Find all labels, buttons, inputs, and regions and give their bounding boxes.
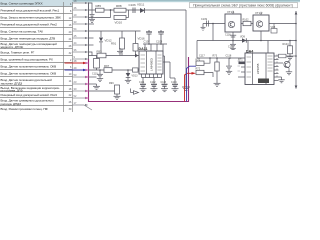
- ground (main rail): [182, 84, 190, 90]
- svg-text:VD9: VD9: [240, 36, 245, 39]
- table row lines: [0, 6, 73, 8]
- svg-text:VD10: VD10: [115, 21, 123, 25]
- wire pin row13: [73, 83, 86, 85]
- wire row4 stub: [89, 23, 95, 25]
- svg-text:Вход. уровневый ход расходомер: Вход. уровневый ход расходомера. РХ: [1, 58, 53, 62]
- wire pin row8: [73, 51, 86, 53]
- wire row14: [89, 90, 115, 92]
- wire DA11 right pins: [163, 56, 175, 84]
- IC DA11 voltage regulator: [139, 47, 164, 74]
- svg-text:VD8: VD8: [271, 26, 276, 29]
- svg-text:C108: C108: [156, 40, 163, 44]
- wire bus corner down / +rail vertical: [185, 10, 187, 84]
- zener VD12: [99, 31, 112, 56]
- wire red net (from bottom border to R72): [185, 72, 197, 102]
- pin codes in narrow column: [69, 3, 72, 111]
- top window edge strip: [0, 0, 300, 2]
- resistor R97: [104, 64, 112, 72]
- svg-text:C115: C115: [228, 46, 234, 49]
- capacitor C108: [156, 30, 164, 44]
- svg-text:жидкости. ДТОЖ: жидкости. ДТОЖ: [1, 45, 24, 49]
- wire pin row2: [73, 9, 86, 11]
- capacitor C104: [89, 10, 95, 22]
- wire pin row10 (red): [65, 62, 88, 65]
- svg-text:C114: C114: [171, 81, 177, 84]
- wire DA4 left pins: [238, 62, 245, 77]
- ground (pin row13): [93, 84, 100, 89]
- svg-text:R104: R104: [283, 43, 290, 46]
- svg-text:Принципиальная схема ЭБУ (прис: Принципиальная схема ЭБУ (приставки люкс…: [193, 4, 293, 8]
- wire DA11 bottom pins: [142, 74, 162, 84]
- transistor VT1.2: [253, 11, 269, 31]
- wire main top bus y=10.5: [89, 9, 187, 11]
- wire row13 stub: [89, 83, 97, 85]
- resistor R104: [283, 41, 293, 57]
- svg-text:R72: R72: [196, 68, 201, 71]
- svg-text:C109: C109: [201, 18, 208, 21]
- wire pin row1: [73, 2, 86, 4]
- wire VT1.2 down: [260, 31, 262, 41]
- diode VD10: [114, 16, 126, 25]
- ECU left border (grey upper part): [88, 2, 90, 59]
- wire pin row16: [73, 105, 93, 110]
- svg-text:R99: R99: [109, 82, 114, 85]
- svg-text:C116: C116: [225, 33, 231, 36]
- svg-text:C118: C118: [226, 55, 232, 58]
- svg-text:Вход. Датчик температуры возду: Вход. Датчик температуры воздуха. ДТВ: [1, 37, 56, 41]
- wire row5 bus: [89, 30, 141, 32]
- capacitor C112 + ground: [150, 81, 158, 92]
- capacitor C118 body + ground: [226, 58, 232, 74]
- resistor R99 + ground: [109, 82, 121, 99]
- wire row1 stub corner: [89, 3, 93, 10]
- wire row12 stub: [89, 76, 97, 78]
- wire DA4 top pins to bus: [248, 41, 268, 54]
- wire cap bus y=44: [143, 44, 167, 51]
- transistor VT2: [284, 60, 290, 70]
- transistor VT1.1: [225, 10, 241, 32]
- svg-text:C106: C106: [129, 3, 137, 7]
- svg-text:R88: R88: [116, 4, 122, 8]
- svg-text:R102: R102: [243, 19, 250, 22]
- resistor R96 (vertical between buses): [94, 56, 100, 71]
- wire pin row11 (blue): [65, 69, 88, 72]
- svg-text:C112: C112: [150, 81, 156, 84]
- svg-text:Вход. Датчик положения коленва: Вход. Датчик положения коленвала. ОКВ: [1, 72, 57, 76]
- wire pin row6: [73, 37, 86, 39]
- svg-text:Вход. Режим прошивки потенц. П: Вход. Режим прошивки потенц. ПФ: [1, 107, 49, 111]
- svg-text:L4949ED: L4949ED: [149, 57, 153, 71]
- wire pin row4: [73, 23, 86, 25]
- capacitor C105: [117, 48, 123, 56]
- wire vertical x=197: [196, 41, 198, 59]
- wire top-right bus y=23.5: [203, 23, 296, 25]
- node junction x=213: [212, 23, 214, 25]
- wire pin row3: [73, 16, 86, 18]
- pin numbers above wires: [74, 0, 77, 105]
- grey pin arrowheads at border: [85, 2, 88, 106]
- wire parallel branch verticals: [111, 10, 129, 18]
- svg-text:C110: C110: [92, 73, 98, 76]
- capacitor C107: [144, 30, 153, 44]
- wire lower bus y=70: [89, 69, 140, 71]
- svg-text:VD11: VD11: [137, 3, 145, 7]
- svg-text:VD13: VD13: [132, 75, 139, 78]
- capacitor C109 + ground: [201, 18, 209, 31]
- table right border x=72.5: [72, 2, 74, 112]
- wire row3 to parallel branch: [89, 17, 111, 19]
- wire x=213 down to bus y=40.5: [212, 24, 214, 41]
- ECU bottom border (magenta): [88, 101, 189, 103]
- wire DA4 right pins: [274, 56, 283, 81]
- resistor R70: [196, 58, 205, 65]
- wire row6 stub: [89, 37, 94, 39]
- capacitor C115: [228, 41, 236, 50]
- node split junction: [110, 9, 112, 11]
- wire row8 stub corner: [89, 52, 93, 56]
- capacitor C113 + ground: [161, 81, 169, 92]
- diode VD8: [271, 24, 278, 34]
- ground DA4 pin: [278, 77, 284, 83]
- wire mid bus y=55.5: [89, 55, 140, 57]
- wire row7 stub: [89, 44, 94, 46]
- wire VT1.1 down + capacitor C116: [225, 32, 236, 41]
- wire pin row15: [73, 97, 86, 99]
- svg-text:Вход. Сигнал на соленоид. ТАК: Вход. Сигнал на соленоид. ТАК: [1, 30, 44, 34]
- svg-text:Резервный вход дискретный низк: Резервный вход дискретный низкий. Рвх3: [1, 93, 58, 97]
- svg-text:Выход. Главное реле. РГ: Выход. Главное реле. РГ: [1, 51, 35, 55]
- svg-text:R70: R70: [196, 58, 201, 61]
- wire pin row5: [73, 30, 86, 32]
- table row texts: [1, 2, 61, 112]
- wire pin row7: [73, 44, 86, 46]
- wire blue net (from bottom border to R70): [187, 66, 197, 101]
- wire R70/R72 to node: [204, 58, 213, 77]
- wire pin row9: [73, 58, 86, 60]
- diode VD13 + ground: [125, 70, 138, 83]
- wire pin row12: [73, 76, 86, 78]
- svg-text:Резервный вход дискретный высо: Резервный вход дискретный высокий. Рвх1: [1, 9, 60, 13]
- capacitor C114 + ground: [171, 81, 179, 92]
- diode VD16: [133, 31, 145, 56]
- svg-text:R93: R93: [97, 49, 103, 53]
- ground VT2 emitter: [286, 70, 292, 75]
- ground R104: [287, 57, 293, 60]
- svg-text:Вход. Датчик положения коленва: Вход. Датчик положения коленвала. ОКВ: [1, 65, 57, 69]
- svg-text:C113: C113: [161, 81, 167, 84]
- connector arrow symbol: [131, 89, 139, 95]
- capacitor C106: [129, 3, 137, 13]
- wire +12V rail right: [295, 11, 298, 89]
- svg-text:Вход. Сигнал соленоида ЭПХХ: Вход. Сигнал соленоида ЭПХХ: [1, 2, 43, 6]
- pink pin marks on magenta border: [86, 62, 90, 99]
- resistor R71 (thick): [238, 58, 249, 64]
- node junction lower bus: [99, 69, 101, 71]
- resistor R85: [96, 4, 105, 12]
- svg-text:C107: C107: [144, 40, 151, 44]
- IC DA4 driver: [245, 49, 274, 84]
- svg-text:ки топлива. ДГФ: ки топлива. ДГФ: [1, 88, 24, 92]
- table column separator x=63.5: [63, 2, 65, 112]
- resistor R93: [97, 49, 107, 57]
- ECU right border (magenta): [188, 57, 190, 102]
- svg-text:R97: R97: [104, 64, 110, 68]
- capacitor C111 + ground: [139, 81, 147, 92]
- svg-text:КР1055: КР1055: [256, 63, 260, 74]
- diode VD9 on bus: [240, 36, 246, 43]
- svg-text:R73: R73: [213, 55, 218, 58]
- svg-text:R85: R85: [96, 4, 102, 8]
- DA4 pin number marks: [276, 55, 278, 76]
- resistor R98 on bus before DA11: [133, 68, 139, 72]
- svg-text:R91: R91: [111, 42, 117, 46]
- resistor R73 body + ground: [214, 58, 221, 86]
- diode VD11: [137, 3, 145, 13]
- resistor R106: [279, 54, 297, 58]
- resistor R72: [196, 68, 205, 75]
- node junctions on bus: [209, 57, 211, 59]
- svg-text:C117: C117: [199, 55, 205, 58]
- resistor R88: [114, 4, 126, 12]
- ECU left border (magenta lower part): [88, 59, 90, 102]
- wire bus y=40.5: [197, 40, 296, 42]
- capacitor C110 + ground: [92, 70, 103, 82]
- svg-text:Вход. Запрос включения кондици: Вход. Запрос включения кондиционера. ЗВК: [1, 16, 61, 20]
- resistor R91: [111, 31, 125, 56]
- wire pin row14: [73, 90, 86, 92]
- svg-text:Резервный вход дискретный низк: Резервный вход дискретный низкий. Рвх2: [1, 23, 58, 27]
- diode VD14: [135, 54, 138, 58]
- svg-text:C111: C111: [139, 81, 145, 84]
- resistor R102: [243, 19, 252, 26]
- svg-text:расхода. ДПДЗ: расхода. ДПДЗ: [1, 102, 22, 106]
- wire mid bus y=58: [197, 57, 245, 59]
